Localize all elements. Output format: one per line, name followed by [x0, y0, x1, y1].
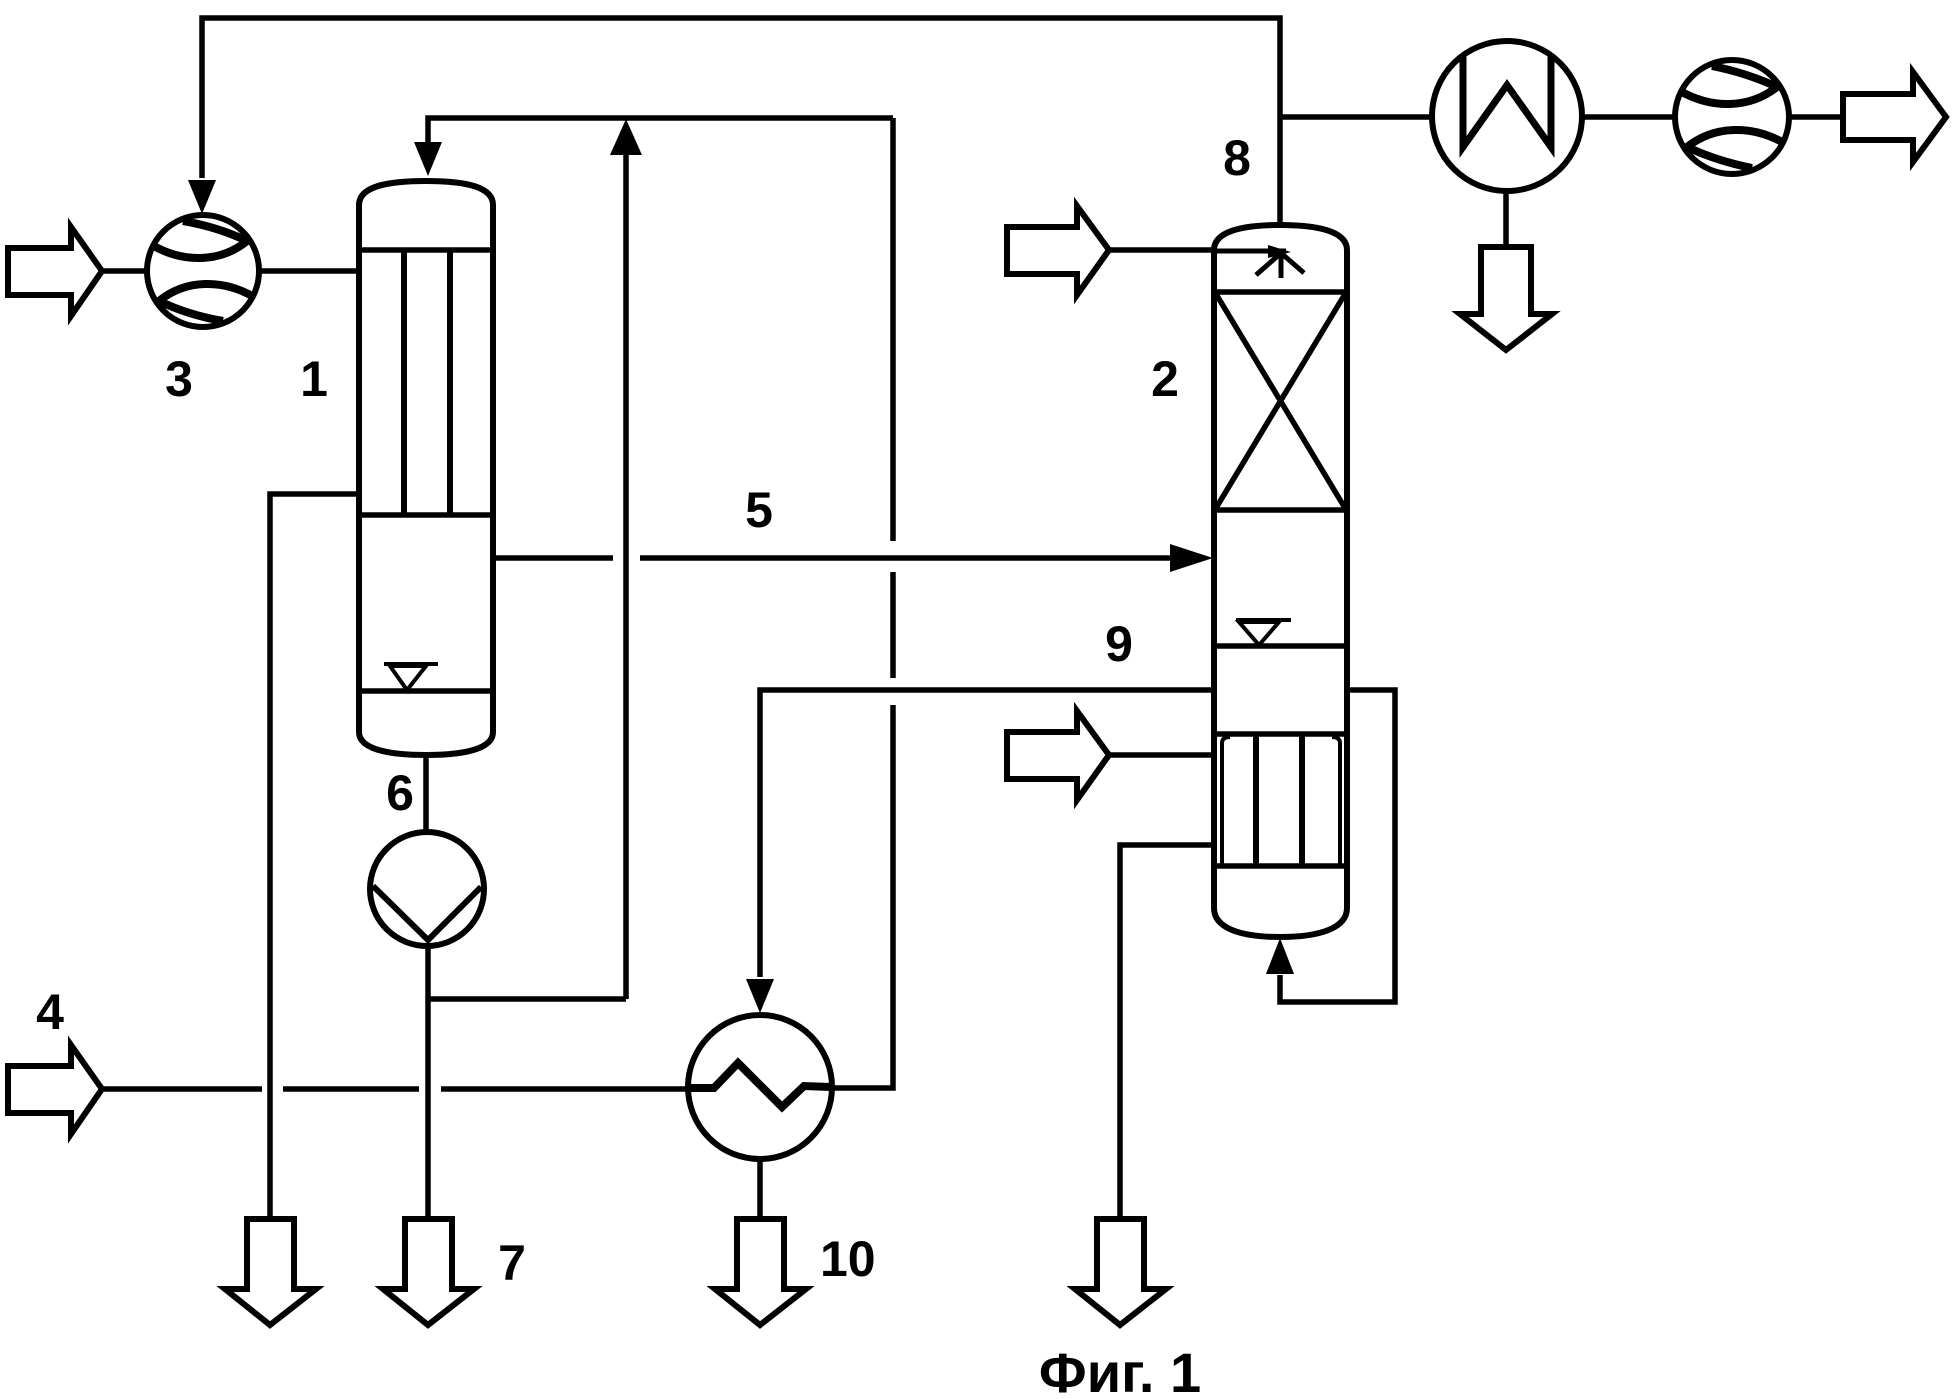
reactor 1 bottom tube sheet: [359, 512, 493, 518]
wire riser from heat exchanger 10 to top header (with crossover gaps): [832, 118, 893, 1088]
input arrow upper feed column 2: [1007, 206, 1109, 295]
svg-text:2: 2: [1151, 351, 1179, 407]
svg-text:4: 4: [36, 984, 64, 1040]
output arrow 7 pump discharge: [383, 1219, 474, 1325]
reactor 1 tube: [447, 250, 453, 515]
output arrow reactor 1 side draw: [225, 1219, 316, 1325]
column 2 reboiler top tube sheet: [1214, 731, 1347, 737]
column 2 reboiler tube: [1253, 735, 1259, 866]
pump 6: [370, 832, 484, 946]
input arrow lower feed column 2: [1007, 711, 1109, 800]
wire top recycle from column 2 overhead to compressor 3: [202, 18, 1280, 225]
solid arrowhead stream 5 into column 2: [1170, 544, 1213, 572]
blower: [1675, 60, 1789, 174]
solid arrowhead down into compressor 3: [188, 180, 216, 214]
column 2 reboiler tube bundle: [1222, 737, 1340, 866]
output arrow condenser drain: [1460, 247, 1552, 350]
solid arrowhead down into reactor 1 top: [414, 142, 442, 176]
svg-text:3: 3: [165, 351, 193, 407]
column 2 dome separator line: [1214, 289, 1347, 295]
output arrow column 2 bottoms: [1075, 1219, 1166, 1325]
column 2 reboiler bottom tube sheet: [1214, 863, 1347, 869]
svg-text:Фиг. 1: Фиг. 1: [1039, 1341, 1201, 1399]
wire column 2 bottoms to outlet: [1120, 845, 1214, 1219]
wire condenser bottom drain: [1503, 191, 1509, 247]
column 2 feed distributor: [1214, 245, 1304, 278]
wire feed into compressor 3: [102, 268, 147, 274]
wire riser from pump 6 discharge to top header: [623, 155, 629, 999]
wire pump 6 discharge branch to riser: [428, 996, 626, 1002]
solid arrowhead down into heat exchanger 10: [746, 979, 774, 1013]
wire feed 4 line to heat exchanger 10 (crossover gaps): [102, 1086, 688, 1092]
column 2 shell: [1214, 225, 1347, 937]
column 2 liquid level line: [1214, 643, 1347, 649]
svg-text:5: 5: [745, 482, 773, 538]
compressor 3: [147, 215, 259, 327]
wire stream 5 reactor 1 to column 2 (gap at riser crossing): [496, 555, 1178, 561]
svg-text:7: 7: [498, 1235, 526, 1291]
wire stream 9 column 2 side draw to heat exchanger 10: [760, 690, 1212, 977]
reactor 1 liquid level line: [359, 688, 493, 694]
column 2 reboiler tube: [1299, 735, 1305, 866]
reactor 1 top tube sheet: [359, 247, 493, 253]
solid arrowhead up into top header: [610, 119, 642, 155]
svg-text:1: 1: [300, 351, 328, 407]
wire compressor 3 to reactor 1: [258, 268, 357, 274]
wire reactor 1 bottom to pump 6: [423, 754, 429, 833]
reactor 1 shell: [359, 181, 493, 755]
solid arrowhead up into column 2 bottom: [1266, 938, 1294, 974]
wire reboiler loop of column 2: [1280, 690, 1395, 1002]
column 2 level marker: [1236, 620, 1291, 645]
wire condenser to blower: [1583, 114, 1676, 120]
wire reactor 1 side draw down to outlet (crossover gap at feed 4): [270, 494, 357, 1219]
condenser: [1432, 41, 1582, 191]
input arrow feed 4: [8, 1045, 102, 1134]
wire heat exchanger 10 bottom to outlet 10: [757, 1159, 763, 1219]
wire blower to outlet: [1789, 114, 1843, 120]
reactor 1 tube: [401, 250, 407, 515]
svg-text:8: 8: [1223, 130, 1251, 186]
svg-text:10: 10: [820, 1231, 876, 1287]
output arrow 10 heat exchanger drain: [715, 1219, 806, 1325]
input arrow to compressor 3: [8, 227, 102, 316]
output arrow product right: [1843, 72, 1946, 162]
wire combined recycle into reactor 1 top: [428, 118, 893, 145]
wire lower feed into column 2: [1109, 752, 1214, 758]
column 2 packing section: [1214, 294, 1347, 510]
svg-text:6: 6: [386, 765, 414, 821]
wire pump 6 discharge down to outlet 7: [425, 946, 431, 1219]
heat exchanger 10: [688, 1015, 832, 1159]
reactor 1 level marker: [384, 664, 438, 690]
wire overhead product line to condenser: [1280, 114, 1432, 120]
svg-text:9: 9: [1105, 616, 1133, 672]
wire upper feed into column 2: [1109, 247, 1214, 253]
